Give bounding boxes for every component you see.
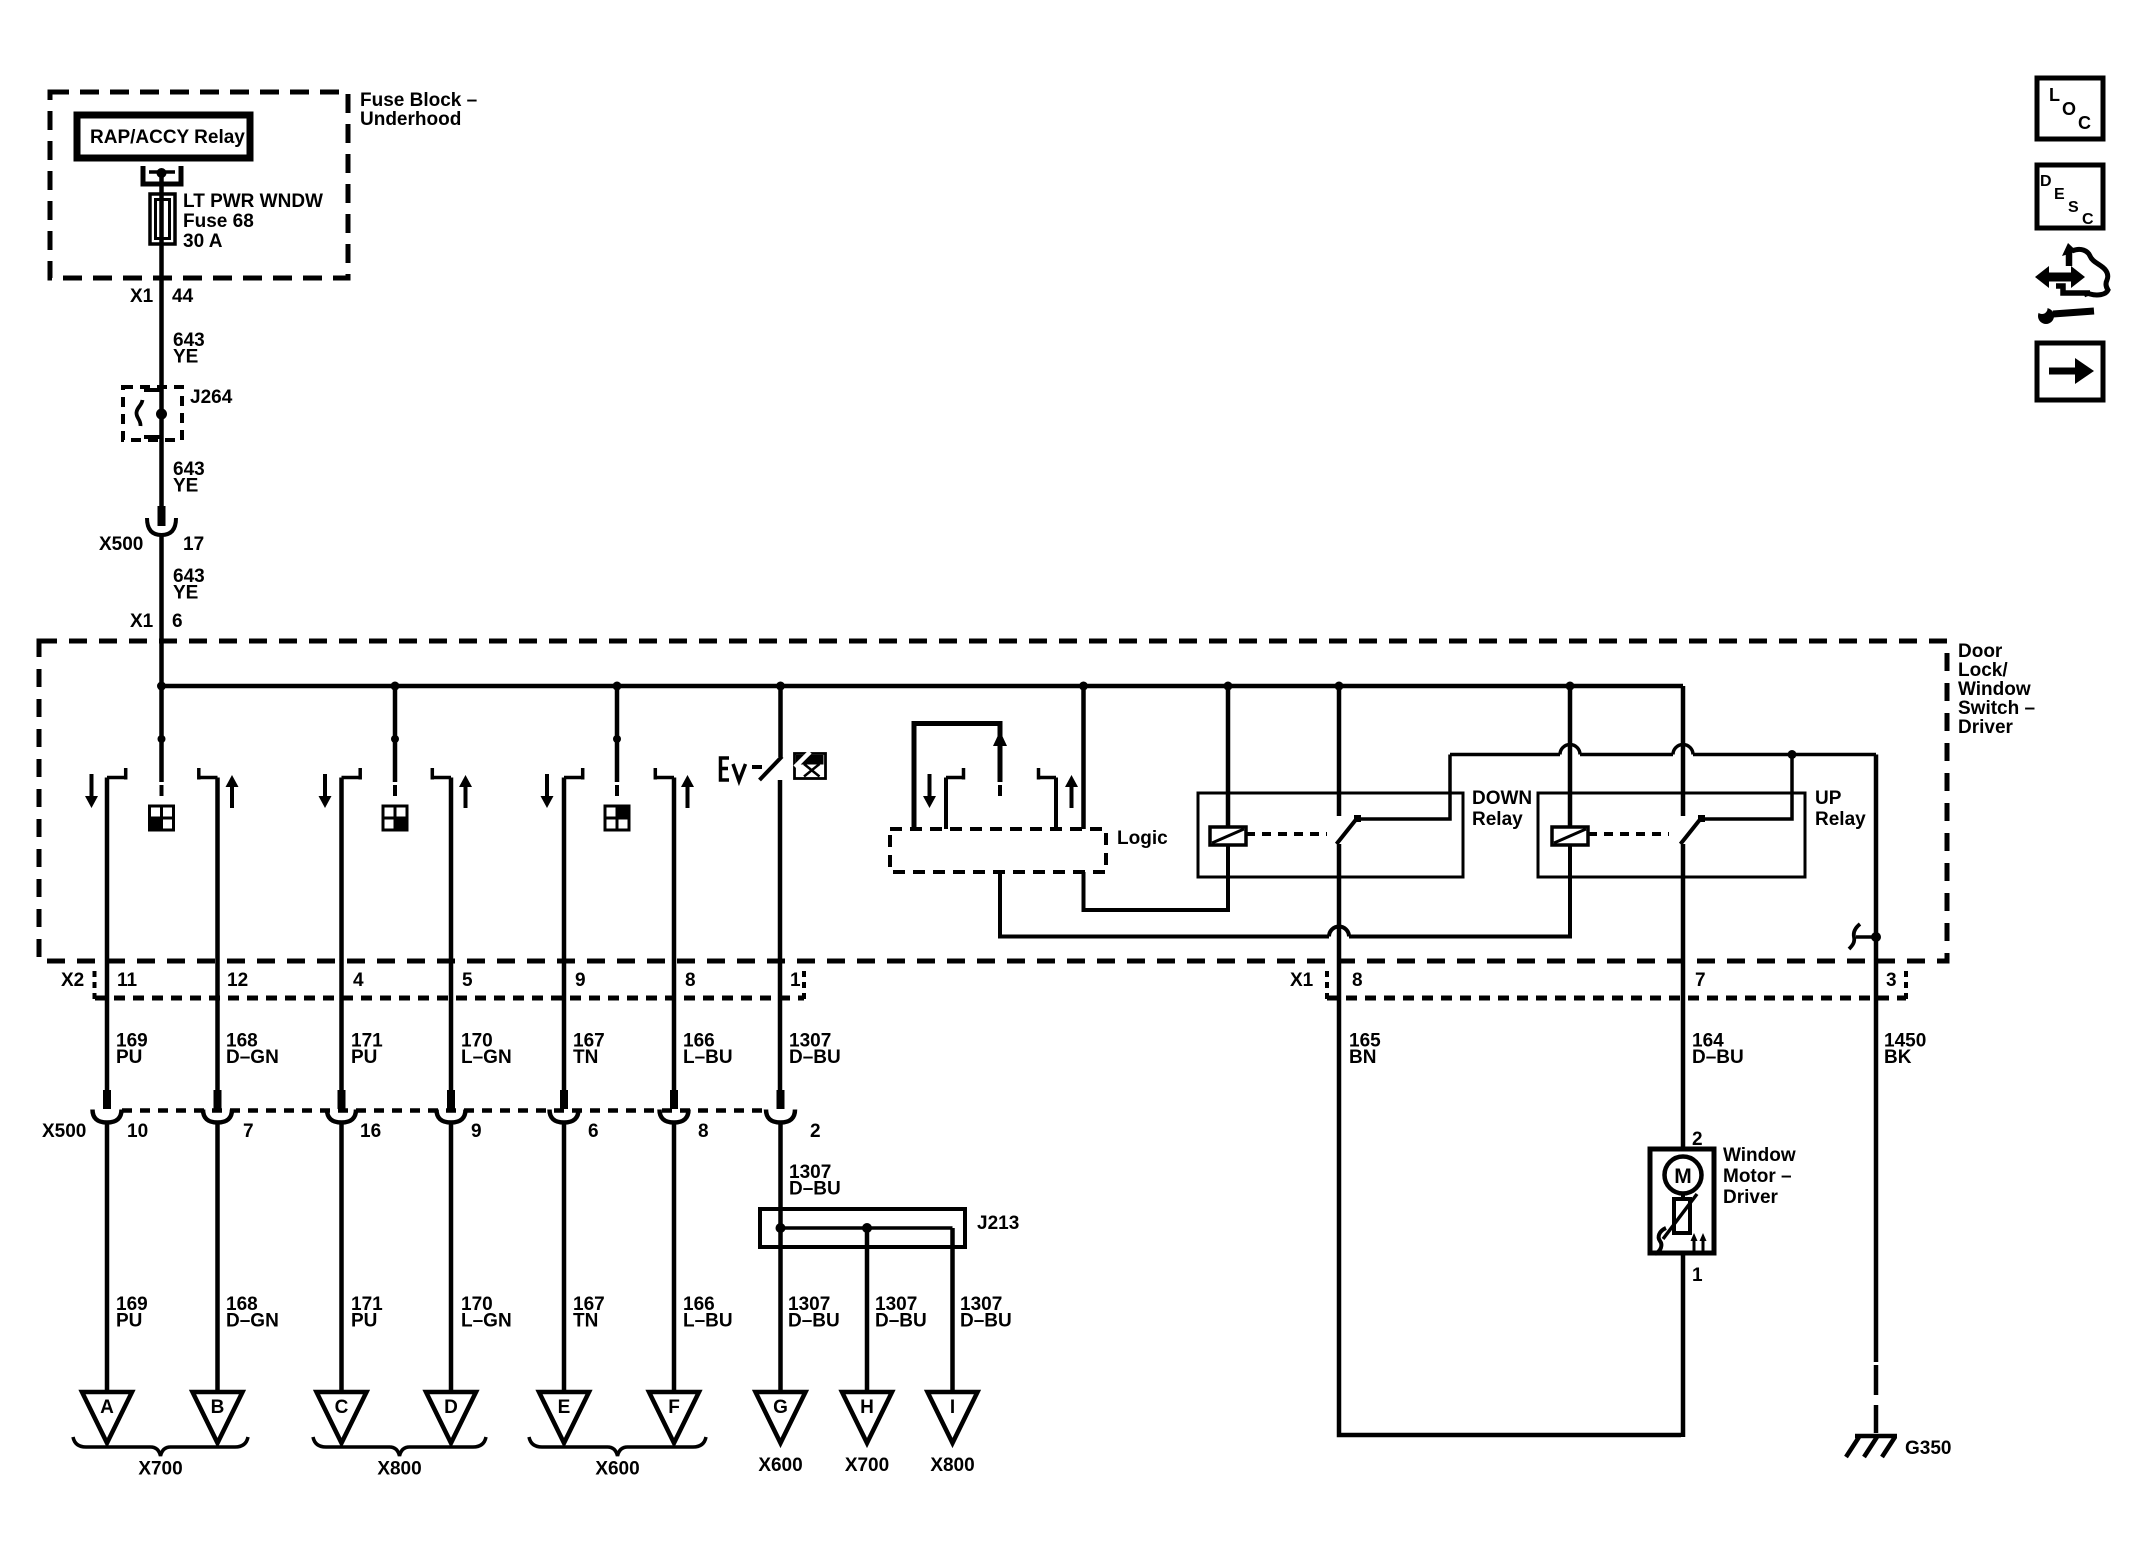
svg-text:X700: X700 — [845, 1455, 889, 1476]
wire logic to DOWN relay coil — [1084, 845, 1229, 910]
svg-text:X500: X500 — [42, 1121, 86, 1142]
svg-text:C: C — [2078, 113, 2091, 133]
svg-text:Relay: Relay — [1472, 809, 1523, 830]
svg-text:D–BU: D–BU — [960, 1311, 1012, 1332]
svg-text:9: 9 — [471, 1121, 482, 1142]
window switch driver — [85, 686, 239, 830]
svg-text:A: A — [100, 1397, 114, 1418]
svg-text:S: S — [2068, 199, 2079, 216]
connector F — [649, 1392, 699, 1443]
connector B — [193, 1392, 243, 1443]
X500 terminal — [437, 1090, 466, 1123]
svg-text:Logic: Logic — [1117, 828, 1168, 849]
svg-text:8: 8 — [698, 1121, 709, 1142]
svg-text:J213: J213 — [977, 1213, 1019, 1234]
wire to connector triangle — [672, 1123, 677, 1395]
express down switch — [721, 686, 783, 1093]
svg-text:BK: BK — [1884, 1047, 1912, 1068]
svg-text:10: 10 — [127, 1121, 148, 1142]
connector row X2 — [61, 970, 804, 1001]
X500 terminal — [327, 1090, 356, 1123]
wire to connector triangle — [215, 1123, 220, 1395]
wire switch pin down — [562, 778, 567, 1094]
connector row X500 — [42, 1111, 766, 1143]
svg-text:X800: X800 — [377, 1459, 421, 1480]
wire switch pin down — [449, 778, 454, 1094]
wire switch pin down — [672, 778, 677, 1094]
svg-text:G: G — [773, 1397, 788, 1418]
svg-text:X600: X600 — [595, 1459, 639, 1480]
wire label 166 — [683, 1031, 733, 1069]
connector X500 pin 17 inline — [99, 506, 204, 555]
svg-text:Motor –: Motor – — [1723, 1166, 1792, 1187]
svg-text:DOWN: DOWN — [1472, 788, 1532, 809]
junction node bus x=617 — [613, 682, 622, 691]
wire label 165 — [1349, 1031, 1381, 1069]
svg-text:2: 2 — [810, 1121, 821, 1142]
window switch rear — [541, 686, 695, 830]
svg-text:Underhood: Underhood — [360, 109, 461, 130]
wire motor bottom — [1681, 1253, 1686, 1437]
svg-text:PU: PU — [116, 1047, 142, 1068]
wire label 169 low — [116, 1294, 148, 1332]
svg-text:BN: BN — [1349, 1047, 1376, 1068]
X500 terminal — [660, 1090, 689, 1123]
svg-text:6: 6 — [588, 1121, 599, 1142]
svg-text:PU: PU — [116, 1311, 142, 1332]
wire label 1307 D-BU — [789, 1162, 841, 1200]
junction node bus x=1083.5 — [1079, 682, 1088, 691]
UP relay contact — [1588, 686, 1792, 844]
X500 terminal — [766, 1090, 795, 1123]
X500 terminal — [550, 1090, 579, 1123]
svg-text:Lock/: Lock/ — [1958, 660, 2008, 681]
X500 terminal — [203, 1090, 232, 1123]
svg-text:YE: YE — [173, 583, 198, 604]
connector E — [539, 1392, 589, 1443]
relay output terminal — [143, 166, 181, 184]
junction node bus x=395 — [391, 682, 400, 691]
svg-text:X700: X700 — [138, 1459, 182, 1480]
wire switch pin down — [105, 778, 110, 1094]
wire label 168 low — [226, 1294, 279, 1332]
wire switch pin down — [339, 778, 344, 1094]
wire label 167 low — [573, 1294, 605, 1332]
brace X800 — [313, 1437, 486, 1480]
svg-text:G350: G350 — [1905, 1438, 1951, 1459]
wire label 170 — [461, 1031, 512, 1069]
connector G — [756, 1392, 806, 1443]
fuse 68 LT PWR WNDW — [150, 191, 323, 252]
wire from relay to fuse — [159, 173, 164, 508]
wire to connector triangle — [105, 1123, 110, 1395]
wire J213 to I — [950, 1228, 955, 1394]
icon LOC — [2037, 78, 2103, 139]
svg-text:16: 16 — [360, 1121, 381, 1142]
svg-text:Door: Door — [1958, 641, 2003, 662]
svg-text:L–BU: L–BU — [683, 1047, 733, 1068]
svg-text:D: D — [2040, 173, 2052, 190]
svg-text:L–BU: L–BU — [683, 1311, 733, 1332]
svg-text:Window: Window — [1958, 679, 2031, 700]
wire label 166 low — [683, 1294, 733, 1332]
svg-text:4: 4 — [353, 970, 364, 991]
svg-text:B: B — [211, 1397, 225, 1418]
wire label 169 — [116, 1031, 148, 1069]
brace X700 — [73, 1437, 248, 1480]
connector C — [317, 1392, 367, 1443]
svg-text:X500: X500 — [99, 534, 143, 555]
wire label 171 — [351, 1031, 383, 1069]
svg-text:Driver: Driver — [1723, 1187, 1779, 1208]
svg-text:I: I — [950, 1397, 955, 1418]
svg-text:Window: Window — [1723, 1145, 1796, 1166]
splice J264 — [123, 387, 233, 440]
express window icon — [795, 752, 826, 779]
icon adjust hand wrench — [2029, 243, 2108, 324]
window motor driver — [1650, 1145, 1796, 1254]
wire label 1307 low — [788, 1294, 840, 1332]
svg-text:Fuse 68: Fuse 68 — [183, 211, 254, 232]
svg-text:F: F — [668, 1397, 680, 1418]
svg-text:H: H — [860, 1397, 874, 1418]
wire switch pin down — [215, 778, 220, 1094]
svg-text:D–GN: D–GN — [226, 1311, 279, 1332]
junction node bus x=1228 — [1224, 682, 1233, 691]
svg-text:LT PWR WNDW: LT PWR WNDW — [183, 191, 323, 212]
svg-text:Driver: Driver — [1958, 717, 2014, 738]
logic master switch — [914, 724, 1078, 830]
connector X1 pin 44 — [130, 286, 194, 307]
svg-text:D–BU: D–BU — [1692, 1047, 1744, 1068]
svg-text:X1: X1 — [1290, 970, 1314, 991]
wire to connector triangle — [339, 1123, 344, 1395]
wire to connector triangle — [449, 1123, 454, 1395]
wire bus to logic — [1081, 686, 1086, 829]
svg-text:E: E — [2054, 186, 2065, 203]
connector H — [842, 1392, 892, 1443]
bus wire B+ inside module — [162, 684, 1684, 689]
UP relay — [1538, 788, 1866, 877]
svg-text:30 A: 30 A — [183, 231, 223, 252]
svg-text:Switch –: Switch – — [1958, 698, 2035, 719]
icon DESC — [2037, 165, 2103, 228]
svg-text:X800: X800 — [930, 1455, 974, 1476]
DOWN relay coil — [1210, 686, 1246, 845]
wire label 643 YE — [173, 566, 205, 604]
wire label 643 YE — [173, 330, 205, 368]
svg-text:Relay: Relay — [1815, 809, 1866, 830]
svg-text:YE: YE — [173, 476, 198, 497]
wire UP relay to X1-7 motor pin 2 — [1681, 844, 1686, 1149]
wire label 164 — [1692, 1031, 1744, 1069]
junction node bus x=161.5 — [157, 682, 166, 691]
svg-text:11: 11 — [117, 970, 138, 991]
svg-text:PU: PU — [351, 1047, 377, 1068]
connector I — [928, 1392, 978, 1443]
svg-text:M: M — [1674, 1165, 1692, 1188]
svg-text:7: 7 — [243, 1121, 254, 1142]
DOWN relay contact — [1246, 686, 1450, 844]
svg-text:D: D — [444, 1397, 458, 1418]
svg-text:44: 44 — [172, 286, 194, 307]
svg-text:D–BU: D–BU — [789, 1047, 841, 1068]
svg-text:RAP/ACCY Relay: RAP/ACCY Relay — [90, 127, 245, 148]
svg-text:L–GN: L–GN — [461, 1047, 512, 1068]
wire label 170 low — [461, 1294, 512, 1332]
RAP/ACCY Relay — [77, 115, 250, 158]
wire logic to UP relay coil — [1000, 845, 1570, 937]
connector D — [426, 1392, 476, 1443]
svg-text:6: 6 — [172, 611, 183, 632]
wire label 1307 — [789, 1031, 841, 1069]
X500 terminal — [93, 1090, 122, 1123]
wire label 168 — [226, 1031, 279, 1069]
svg-text:L: L — [2049, 85, 2060, 105]
svg-text:C: C — [2082, 211, 2094, 228]
wire label 167 — [573, 1031, 605, 1069]
wire pin3 to ground — [1849, 755, 1881, 1363]
svg-text:X1: X1 — [130, 611, 154, 632]
svg-text:8: 8 — [685, 970, 696, 991]
svg-text:TN: TN — [573, 1311, 598, 1332]
window switch front passenger — [319, 686, 473, 830]
svg-text:X600: X600 — [758, 1455, 802, 1476]
svg-text:X2: X2 — [61, 970, 84, 991]
svg-text:3: 3 — [1886, 970, 1897, 991]
svg-text:J264: J264 — [190, 387, 233, 408]
svg-text:5: 5 — [462, 970, 473, 991]
connector A — [82, 1392, 132, 1443]
svg-text:1: 1 — [1692, 1265, 1703, 1286]
door lock/window switch driver module box — [39, 641, 2035, 961]
DOWN relay — [1198, 788, 1532, 877]
svg-text:UP: UP — [1815, 788, 1842, 809]
svg-text:O: O — [2062, 99, 2076, 119]
svg-text:L–GN: L–GN — [461, 1311, 512, 1332]
junction node bus x=780.5 — [776, 682, 785, 691]
svg-text:17: 17 — [183, 534, 204, 555]
svg-text:8: 8 — [1352, 970, 1363, 991]
wire label 171 low — [351, 1294, 383, 1332]
svg-text:PU: PU — [351, 1311, 377, 1332]
svg-text:D–BU: D–BU — [788, 1311, 840, 1332]
splice pack J213 — [760, 1209, 1019, 1247]
wire DOWN relay to X1-8 and motor low side — [1339, 844, 1681, 1435]
svg-text:E: E — [558, 1397, 571, 1418]
icon arrow next — [2037, 343, 2103, 400]
wire 1307 to J213 — [778, 1123, 783, 1229]
svg-text:Fuse Block –: Fuse Block – — [360, 90, 477, 111]
fuse block underhood box — [50, 90, 477, 278]
wire 1450 BK dashed to ground — [1874, 1365, 1879, 1433]
wire label 1307 low — [960, 1294, 1012, 1332]
svg-text:D–GN: D–GN — [226, 1047, 279, 1068]
svg-text:1: 1 — [790, 970, 801, 991]
wire label 643 YE — [173, 459, 205, 497]
logic box — [890, 828, 1168, 872]
svg-text:12: 12 — [227, 970, 248, 991]
wire relay commons to motor and ground — [1450, 745, 1876, 759]
svg-text:TN: TN — [573, 1047, 598, 1068]
wire 643 YE to module — [159, 535, 164, 690]
connector row X1 — [1290, 970, 1906, 1001]
connector X1 pin 6 — [130, 611, 183, 632]
wire to connector triangle — [562, 1123, 567, 1395]
wire J213 to H — [865, 1228, 870, 1394]
brace X600 — [529, 1437, 706, 1480]
wire label 1307 low — [875, 1294, 927, 1332]
svg-text:C: C — [335, 1397, 349, 1418]
wire label 1450 — [1884, 1031, 1926, 1069]
junction node bus x=1339 — [1335, 682, 1344, 691]
wire J213 to G — [778, 1228, 783, 1394]
svg-text:9: 9 — [575, 970, 586, 991]
UP relay coil — [1552, 686, 1588, 845]
junction node bus x=1570 — [1566, 682, 1575, 691]
svg-text:7: 7 — [1695, 970, 1706, 991]
svg-text:D–BU: D–BU — [875, 1311, 927, 1332]
svg-text:X1: X1 — [130, 286, 154, 307]
ground G350 — [1846, 1436, 1951, 1459]
svg-text:YE: YE — [173, 347, 198, 368]
svg-text:D–BU: D–BU — [789, 1179, 841, 1200]
